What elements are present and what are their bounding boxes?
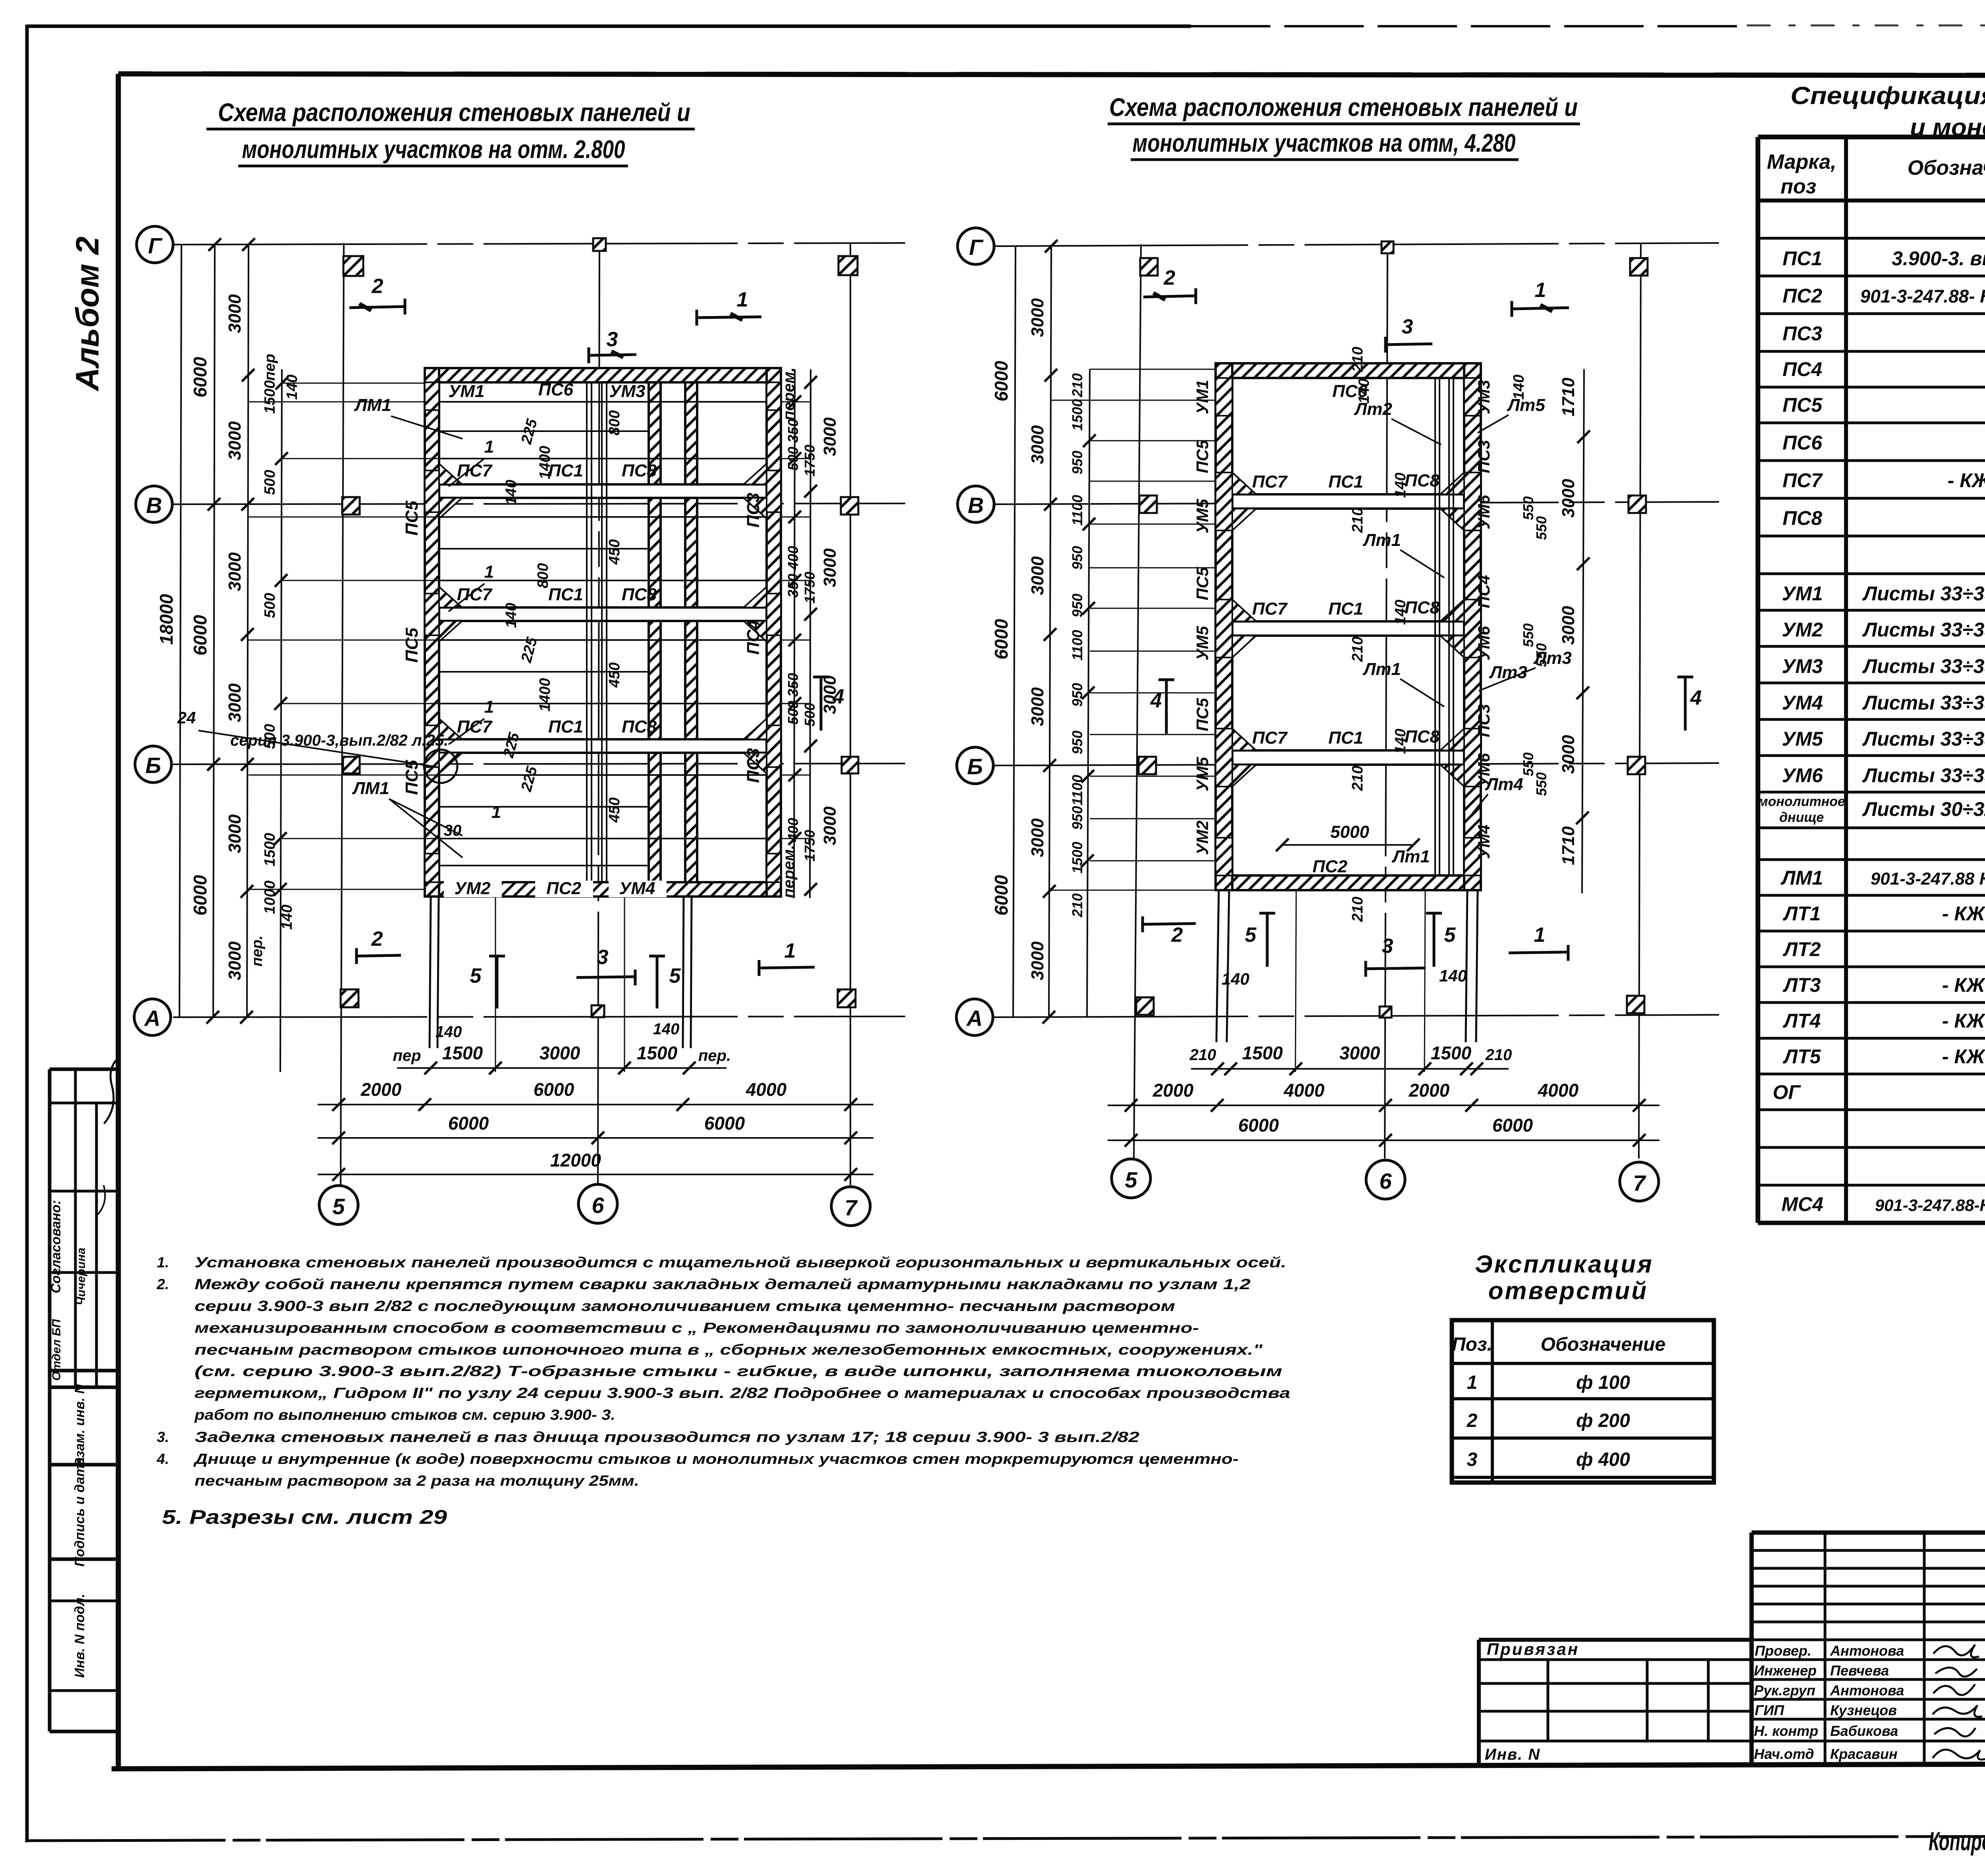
left dim chains verticals: [179, 245, 282, 1072]
svg-text:800: 800: [606, 410, 623, 435]
axis Б line: [994, 763, 1719, 765]
svg-text:7: 7: [844, 1195, 858, 1220]
svg-text:500: 500: [802, 703, 818, 727]
svg-text:1710: 1710: [1559, 826, 1578, 865]
svg-text:- КЖ.И 56. 000: - КЖ.И 56. 000: [1942, 1045, 1985, 1068]
inner horizontal wall 3: [439, 739, 767, 753]
svg-text:450: 450: [606, 539, 623, 565]
svg-text:4: 4: [1150, 689, 1162, 712]
rotated dim labels inside (225/1400/800): [500, 410, 623, 823]
svg-text:1710: 1710: [1559, 378, 1578, 416]
svg-text:ПС1: ПС1: [1328, 599, 1363, 619]
svg-text:ПС5: ПС5: [402, 501, 422, 536]
svg-text:Рук.груп: Рук.груп: [1754, 1682, 1815, 1699]
svg-text:3000: 3000: [1028, 556, 1047, 595]
svg-text:7: 7: [1633, 1170, 1646, 1195]
svg-text:Заделка стеновых панелей: Заделка стеновых панелей в паз днища про…: [195, 1429, 1140, 1445]
svg-text:УМ6: УМ6: [1782, 764, 1823, 787]
svg-text:140: 140: [503, 480, 520, 505]
svg-text:350 400: 350 400: [785, 546, 801, 598]
svg-text:400: 400: [785, 818, 801, 842]
section marks: [1143, 266, 1702, 977]
junction hatch blocks: [425, 382, 781, 882]
svg-text:500: 500: [262, 470, 278, 495]
svg-text:5: 5: [1444, 924, 1456, 947]
bottom band labels: [444, 881, 502, 897]
right wall rotated labels: [1474, 380, 1493, 859]
svg-text:500 350: 500 350: [785, 419, 801, 470]
svg-text:ПС8: ПС8: [622, 717, 657, 737]
svg-text:1500: 1500: [262, 380, 278, 414]
svg-text:2: 2: [1164, 266, 1176, 289]
vertical axes 5 6 7: [1134, 244, 1141, 1159]
svg-text:УМ5: УМ5: [1782, 728, 1823, 750]
svg-text:Схема расположения стеновых: Схема расположения стеновых панелей и: [1109, 93, 1578, 121]
svg-text:перем.: перем.: [780, 845, 798, 898]
svg-text:500: 500: [262, 593, 278, 618]
building walls: [425, 368, 781, 897]
svg-text:6000: 6000: [991, 875, 1012, 916]
panel joint thin lines in cells: [439, 402, 767, 866]
svg-text:ф 200: ф 200: [1576, 1410, 1630, 1431]
left wall rotated labels: [1193, 380, 1212, 855]
svg-text:950: 950: [1069, 731, 1085, 754]
svg-text:6000: 6000: [991, 619, 1012, 659]
inner frame left: [116, 74, 121, 1766]
leader "1" marks: [449, 437, 501, 822]
svg-text:1.: 1.: [157, 1254, 169, 1271]
svg-text:1500: 1500: [1069, 842, 1085, 873]
svg-text:ф 100: ф 100: [1576, 1372, 1630, 1393]
svg-text:800: 800: [535, 563, 551, 588]
svg-text:УМ6: УМ6: [1474, 626, 1493, 660]
rows: [1758, 211, 1985, 1215]
svg-text:ЛТ5: ЛТ5: [1783, 1045, 1821, 1068]
svg-text:МС4: МС4: [1781, 1193, 1823, 1215]
walls below building: [1216, 890, 1478, 1072]
walls below building: [430, 897, 692, 1072]
svg-text:210: 210: [1069, 373, 1085, 397]
svg-text:3: 3: [1467, 1449, 1478, 1470]
svg-text:пер.: пер.: [249, 935, 266, 966]
svg-text:6000: 6000: [190, 875, 210, 916]
svg-text:ПС8: ПС8: [1405, 598, 1440, 617]
svg-text:5: 5: [1245, 924, 1257, 947]
axis Б line: [173, 764, 905, 764]
left wall: [425, 368, 439, 897]
svg-text:4: 4: [1690, 686, 1702, 710]
svg-text:Лт1: Лт1: [1363, 530, 1401, 550]
svg-text:УМ1: УМ1: [1193, 380, 1212, 415]
svg-text:550: 550: [1533, 516, 1549, 540]
bottom dimension chains: [318, 1068, 873, 1174]
bottom wall: [1216, 875, 1481, 890]
svg-text:5: 5: [470, 964, 482, 987]
svg-text:Днище и внутренние (к воде: Днище и внутренние (к воде) поверхности …: [193, 1451, 1239, 1467]
svg-text:Листы 30÷32: Листы 30÷32: [1862, 798, 1985, 820]
inner horizontal wall 1: [1232, 494, 1464, 509]
svg-text:1750: 1750: [802, 572, 818, 603]
svg-text:Листы 33÷35: Листы 33÷35: [1862, 728, 1985, 750]
svg-text:А: А: [966, 1006, 983, 1031]
svg-text:ПС7: ПС7: [1252, 599, 1288, 619]
svg-text:ПС7: ПС7: [457, 461, 493, 480]
svg-text:5: 5: [332, 1194, 345, 1219]
svg-text:1500: 1500: [1069, 399, 1085, 431]
svg-text:песчаным раствором стыков: песчаным раствором стыков шпоночного тип…: [195, 1342, 1263, 1358]
svg-text:210: 210: [1189, 1046, 1216, 1064]
svg-text:Инв. N подл.: Инв. N подл.: [72, 1594, 87, 1678]
axis circle Б: [957, 747, 993, 784]
inner frame top: [118, 74, 1985, 75]
svg-text:Привязан: Привязан: [1487, 1640, 1579, 1658]
svg-text:3: 3: [1382, 935, 1393, 958]
svg-text:УМ2: УМ2: [1782, 619, 1823, 641]
svg-text:УМ6: УМ6: [1474, 495, 1493, 529]
svg-text:Листы 33÷35: Листы 33÷35: [1862, 582, 1985, 605]
svg-text:Между собой панели крепятся: Между собой панели крепятся путем сварки…: [195, 1276, 1251, 1292]
svg-text:ПС5: ПС5: [402, 628, 422, 663]
svg-text:140: 140: [653, 1020, 680, 1038]
svg-text:Обозначение: Обозначение: [1541, 1334, 1665, 1355]
svg-text:3.900-3. вып. 4/82: 3.900-3. вып. 4/82: [1892, 247, 1985, 270]
svg-text:1: 1: [784, 939, 796, 962]
svg-text:Антонова: Антонова: [1830, 1682, 1904, 1699]
sheet outer border top: [27, 25, 1191, 28]
svg-text:ПС7: ПС7: [1252, 472, 1288, 492]
svg-text:Спецификация к схемам распо: Спецификация к схемам расположения стено…: [1790, 82, 1985, 110]
svg-text:ПС5: ПС5: [1193, 698, 1212, 731]
svg-text:6000: 6000: [991, 361, 1012, 401]
svg-text:ПС1: ПС1: [1328, 728, 1363, 748]
svg-text:ПС3: ПС3: [744, 748, 763, 783]
left wall: [1216, 363, 1232, 890]
svg-text:1500: 1500: [442, 1043, 483, 1063]
svg-text:Лт1: Лт1: [1363, 659, 1401, 679]
svg-text:ЛТ4: ЛТ4: [1783, 1010, 1821, 1032]
svg-text:ПС7: ПС7: [1783, 469, 1823, 492]
axis circle В: [136, 486, 172, 523]
svg-text:Инв. N: Инв. N: [1485, 1746, 1540, 1763]
svg-text:УМ3: УМ3: [609, 382, 646, 401]
svg-text:Б: Б: [967, 754, 983, 779]
svg-text:3000: 3000: [1339, 1043, 1380, 1063]
svg-text:ПС1: ПС1: [1328, 472, 1363, 492]
svg-text:1500: 1500: [262, 833, 278, 867]
svg-text:Отдел БП: Отдел БП: [50, 1319, 63, 1380]
svg-text:серии 3.900-3 вып 2/82 с: серии 3.900-3 вып 2/82 с последующим зам…: [195, 1298, 1175, 1314]
axis Г line: [994, 243, 1719, 246]
svg-text:550: 550: [1533, 643, 1549, 667]
svg-text:2.: 2.: [156, 1276, 169, 1292]
junction trapezoids on walls: [1232, 472, 1256, 494]
svg-text:УМ5: УМ5: [1193, 757, 1212, 791]
svg-text:950: 950: [1069, 451, 1085, 474]
svg-text:140: 140: [503, 603, 520, 628]
svg-text:ГИП: ГИП: [1755, 1702, 1785, 1718]
svg-text:пер: пер: [262, 354, 278, 381]
svg-text:ПС5: ПС5: [402, 760, 422, 795]
svg-text:950: 950: [1069, 546, 1085, 570]
axis circle В: [958, 486, 994, 523]
bottom axis circle 7: [831, 1187, 870, 1226]
svg-text:ПС1: ПС1: [548, 717, 583, 737]
hatched column markers: [341, 238, 858, 1017]
svg-text:Листы 33÷35: Листы 33÷35: [1862, 619, 1985, 641]
inner horizontal wall 1: [439, 484, 767, 498]
svg-text:Копировал Подлевская: Копировал Подлевская: [1929, 1826, 1985, 1856]
inner horizontal wall 3: [1232, 750, 1464, 765]
svg-text:210: 210: [1485, 1046, 1512, 1064]
svg-text:3000: 3000: [820, 417, 840, 456]
svg-text:Листы 33÷35: Листы 33÷35: [1862, 764, 1985, 787]
svg-text:1: 1: [491, 802, 501, 822]
svg-text:1100: 1100: [1069, 630, 1085, 660]
svg-text:Кузнецов: Кузнецов: [1830, 1702, 1897, 1718]
svg-text:2: 2: [1171, 924, 1183, 947]
left dim chains: [1013, 246, 1090, 1017]
svg-text:3000: 3000: [1028, 687, 1047, 726]
svg-text:- КЖ.И 55. 000: - КЖ.И 55. 000: [1942, 1010, 1985, 1032]
svg-text:1000: 1000: [262, 881, 278, 914]
svg-text:А: А: [144, 1006, 160, 1031]
axis А line: [173, 1016, 905, 1017]
svg-text:отверстий: отверстий: [1488, 1277, 1648, 1305]
svg-text:поз: поз: [1781, 175, 1816, 198]
svg-text:3000: 3000: [225, 294, 245, 333]
svg-text:210: 210: [1349, 347, 1366, 372]
svg-text:Б: Б: [145, 753, 161, 778]
svg-text:210: 210: [1349, 897, 1366, 922]
svg-text:6: 6: [1379, 1168, 1392, 1193]
svg-text:монолитных участков на от: монолитных участков на отм. 2.800: [242, 135, 625, 164]
svg-text:ЛТ2: ЛТ2: [1783, 938, 1821, 960]
svg-text:210: 210: [1349, 507, 1366, 533]
svg-text:УМ5: УМ5: [1193, 626, 1212, 660]
svg-text:УМ2: УМ2: [1193, 821, 1212, 855]
axis circle А: [134, 999, 171, 1035]
svg-text:УМ2: УМ2: [455, 879, 491, 898]
right 550 dims: [1520, 496, 1549, 796]
svg-text:(см. серию 3.900-3 вып.2: (см. серию 3.900-3 вып.2/82) Т-образные …: [195, 1363, 1282, 1379]
svg-text:6000: 6000: [534, 1079, 574, 1100]
svg-text:ПС1: ПС1: [548, 461, 583, 480]
svg-text:3000: 3000: [225, 683, 245, 722]
svg-text:6000: 6000: [704, 1113, 745, 1134]
axis В line: [994, 502, 1719, 504]
svg-text:ПС2: ПС2: [1312, 857, 1347, 876]
svg-text:пер.: пер.: [698, 1047, 731, 1064]
sheet outer border left: [25, 25, 29, 1842]
svg-text:5: 5: [669, 964, 681, 987]
svg-text:ПС7: ПС7: [1252, 728, 1288, 748]
svg-text:1500: 1500: [637, 1043, 678, 1063]
svg-text:3000: 3000: [1028, 425, 1047, 464]
svg-text:6000: 6000: [190, 357, 210, 397]
svg-text:210: 210: [1349, 636, 1366, 662]
svg-text:1: 1: [484, 437, 494, 457]
svg-text:ПС4: ПС4: [1783, 358, 1822, 380]
svg-text:Красавин: Красавин: [1830, 1746, 1898, 1762]
svg-text:- КЖ.И 52.000: - КЖ.И 52.000: [1948, 469, 1985, 492]
svg-text:5000: 5000: [1330, 822, 1369, 842]
svg-text:3000: 3000: [1559, 606, 1578, 645]
svg-text:ПС5: ПС5: [1193, 567, 1212, 600]
svg-text:140: 140: [279, 904, 295, 929]
inner frame bottom: [112, 1763, 1985, 1769]
right side dim chains: [794, 369, 811, 898]
svg-text:ПС8: ПС8: [1405, 471, 1440, 490]
right wall: [1464, 363, 1481, 890]
svg-text:18000: 18000: [156, 594, 177, 645]
svg-text:В: В: [968, 493, 984, 518]
svg-text:УМ4: УМ4: [619, 879, 655, 898]
axis circle Б: [135, 746, 172, 783]
svg-text:3000: 3000: [225, 941, 245, 980]
svg-text:1: 1: [737, 288, 748, 311]
sheet outer border bottom: [27, 1835, 1985, 1841]
svg-text:механизированным способом: механизированным способом в соответствии…: [195, 1320, 1199, 1336]
svg-text:Листы 33÷35: Листы 33÷35: [1862, 655, 1985, 677]
svg-text:ПС2: ПС2: [1783, 285, 1822, 307]
svg-text:6000: 6000: [190, 615, 210, 656]
svg-text:3000: 3000: [225, 814, 245, 853]
lotok channel lines along axis 6: [587, 382, 607, 882]
svg-text:550: 550: [1533, 772, 1549, 796]
svg-text:УМ5: УМ5: [1193, 499, 1212, 533]
svg-text:Г: Г: [148, 233, 163, 258]
svg-text:140: 140: [1392, 600, 1409, 625]
svg-text:ЛМ1: ЛМ1: [1781, 867, 1823, 889]
svg-text:210: 210: [1349, 765, 1366, 791]
svg-text:1100: 1100: [1069, 495, 1085, 525]
svg-text:5. Разрезы см. лист 29: 5. Разрезы см. лист 29: [162, 1506, 447, 1528]
section marks: [349, 275, 844, 1008]
svg-text:4000: 4000: [746, 1079, 787, 1100]
svg-text:УМ3: УМ3: [1782, 655, 1823, 677]
svg-text:Провер.: Провер.: [1755, 1643, 1812, 1659]
svg-text:Н. контр: Н. контр: [1754, 1723, 1818, 1739]
svg-text:2: 2: [1467, 1410, 1478, 1431]
svg-text:3.: 3.: [157, 1429, 169, 1445]
axis circle А: [956, 999, 993, 1035]
svg-text:3000: 3000: [1559, 735, 1578, 774]
top wall: [425, 368, 781, 382]
6000 labels: [190, 357, 210, 916]
svg-text:ЛМ1: ЛМ1: [354, 395, 391, 415]
svg-text:30: 30: [444, 822, 462, 839]
svg-text:1400: 1400: [537, 678, 553, 712]
svg-text:работ по выполнению сты: работ по выполнению стыков см. серию 3.9…: [194, 1407, 615, 1423]
svg-text:1400: 1400: [537, 446, 553, 480]
svg-text:- КЖ.И 53. 000: - КЖ.И 53. 000: [1942, 902, 1985, 925]
svg-text:901-3-247.88 КЖ.И.57.000: 901-3-247.88 КЖ.И.57.000: [1871, 869, 1985, 889]
svg-text:3000: 3000: [820, 548, 840, 587]
svg-text:Чичерина: Чичерина: [75, 1247, 88, 1305]
svg-text:950: 950: [1069, 683, 1085, 707]
svg-text:днище: днище: [1779, 810, 1824, 825]
svg-text:Инженер: Инженер: [1754, 1662, 1817, 1679]
svg-text:песчаным раствором за 2 ра: песчаным раствором за 2 раза на толщину …: [195, 1473, 639, 1489]
svg-text:герметиком„ Гидром II" по: герметиком„ Гидром II" по узлу 24 серии …: [195, 1385, 1290, 1401]
svg-text:ПС8: ПС8: [1405, 727, 1440, 746]
svg-text:6000: 6000: [1238, 1115, 1279, 1136]
svg-text:2000: 2000: [1409, 1080, 1450, 1101]
svg-text:140: 140: [1439, 966, 1467, 985]
svg-text:5: 5: [1125, 1167, 1137, 1192]
svg-text:140: 140: [1511, 374, 1527, 399]
svg-text:140: 140: [436, 1023, 462, 1041]
svg-text:6: 6: [592, 1193, 604, 1218]
axis Г line: [173, 243, 905, 245]
bottom axis circle 6: [1366, 1160, 1405, 1199]
svg-text:ПС8: ПС8: [1783, 507, 1822, 529]
extension lines: [1051, 369, 1216, 890]
svg-text:140: 140: [1222, 970, 1249, 988]
bottom dimension chains: [1108, 1069, 1659, 1140]
svg-text:Подпись и дата: Подпись и дата: [72, 1457, 87, 1567]
svg-text:УМ4: УМ4: [1474, 825, 1493, 859]
svg-text:Альбом 2: Альбом 2: [69, 237, 106, 392]
svg-text:450: 450: [606, 662, 623, 688]
svg-text:2000: 2000: [360, 1079, 402, 1100]
svg-text:1: 1: [1467, 1372, 1478, 1393]
svg-text:УМ1: УМ1: [449, 382, 485, 401]
svg-text:Лт4: Лт4: [1485, 775, 1523, 794]
svg-text:ПС4: ПС4: [744, 620, 763, 655]
svg-text:1500: 1500: [1242, 1043, 1283, 1063]
svg-text:1750: 1750: [802, 445, 818, 476]
svg-text:4: 4: [833, 685, 844, 708]
svg-text:3: 3: [607, 328, 618, 351]
svg-text:3000: 3000: [1559, 479, 1578, 518]
svg-text:6000: 6000: [448, 1113, 489, 1134]
signatures: [1933, 1645, 1985, 1760]
svg-text:Экспликация: Экспликация: [1475, 1251, 1654, 1278]
bottom wall: [425, 882, 781, 897]
svg-text:1: 1: [1534, 924, 1546, 947]
svg-text:ПС6: ПС6: [538, 380, 573, 399]
svg-text:210: 210: [1069, 893, 1085, 918]
axis circle Г: [137, 226, 173, 263]
svg-text:Листы 33÷35: Листы 33÷35: [1862, 692, 1985, 714]
inner horizontal wall 2: [1232, 621, 1464, 636]
bottom axis circle 5: [1112, 1159, 1151, 1198]
svg-text:ПС5: ПС5: [1783, 394, 1823, 416]
svg-text:3000: 3000: [820, 806, 840, 845]
svg-text:950: 950: [1069, 806, 1085, 830]
svg-text:500: 500: [262, 724, 278, 749]
svg-text:ПС3: ПС3: [1474, 440, 1493, 473]
ЛТ vertical channel lines: [1435, 378, 1453, 875]
left attach box: [1479, 1640, 1752, 1766]
axis В line: [173, 503, 905, 504]
right dim chain: [1582, 369, 1584, 893]
svg-text:140: 140: [1356, 378, 1372, 403]
svg-text:1: 1: [1535, 279, 1546, 302]
junction trapezoids on left plan inner walls: [439, 464, 767, 773]
rotated small dims center: [1349, 347, 1527, 922]
svg-text:3000: 3000: [1028, 941, 1047, 980]
building walls: [1216, 363, 1481, 890]
svg-text:УМ3: УМ3: [1474, 380, 1493, 415]
svg-text:ЛТ3: ЛТ3: [1783, 974, 1821, 996]
ЛТ labels with leaders: [1354, 395, 1572, 866]
svg-text:Бабикова: Бабикова: [1830, 1723, 1898, 1739]
svg-text:140: 140: [1392, 729, 1409, 754]
svg-text:- КЖ.И 54. 000: - КЖ.И 54. 000: [1942, 974, 1985, 996]
inner vertical wall a: [649, 382, 661, 882]
